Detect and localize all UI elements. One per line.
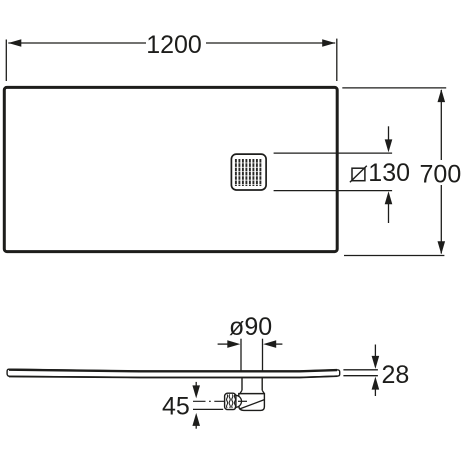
drain trap: body outline	[239, 394, 265, 411]
square symbol of 130 label	[352, 168, 365, 181]
dimension 700: dimension line upper segment	[440, 90, 442, 160]
dimension 28: bottom extension line	[343, 375, 378, 377]
dimension 700: bottom arrowhead (pointing down)	[438, 241, 446, 254]
drain trap: flange line	[239, 393, 265, 395]
drain trap: side boss semicircle	[236, 395, 242, 407]
drain trap: threaded connector nut	[225, 393, 236, 409]
dimension 1200: right arrowhead	[322, 39, 335, 47]
dimension 1200: right extension line	[336, 39, 338, 81]
dimension 45: bottom reference line	[193, 408, 223, 410]
drain trap: vertical outlet pipe	[241, 377, 243, 390]
dimension 130: bottom extension line	[274, 190, 393, 192]
drain grate bars	[236, 159, 261, 186]
svg-text:45: 45	[162, 392, 190, 420]
dimension 1200: dimension line right segment	[206, 42, 335, 44]
drain cover rounded square	[231, 154, 266, 190]
dimension 130: upper arrow (pointing down)	[388, 126, 390, 141]
svg-text:ø90: ø90	[229, 313, 272, 341]
drain trap: flare to body	[240, 390, 242, 393]
dimension 28: upper arrow (pointing down)	[374, 345, 376, 358]
dimension 28: top extension line	[343, 369, 378, 371]
drain trap: centerline across body	[238, 400, 247, 402]
dimension 700: dimension line lower segment	[440, 185, 442, 254]
dimension o90: right arrow (pointing left)	[274, 343, 282, 345]
shower tray side view profile	[7, 369, 340, 377]
drain trap: internal diagonal	[240, 400, 265, 409]
dimension 130: lower arrow (pointing up)	[388, 203, 390, 223]
svg-text:28: 28	[382, 361, 410, 389]
dimension 1200: left arrowhead	[8, 39, 21, 47]
dimension o90: left extension line	[240, 339, 242, 371]
svg-text:700: 700	[420, 160, 462, 188]
dimension 130: top extension line	[274, 152, 393, 154]
dimension 45: lower arrow (pointing up)	[195, 424, 197, 429]
dimension 700: top arrowhead (pointing up)	[438, 89, 446, 102]
shower tray side view bottom surface	[9, 376, 338, 377]
svg-text:130: 130	[368, 159, 410, 187]
dimension 1200: left extension line	[5, 40, 7, 82]
dimension 28: lower arrow (pointing up)	[374, 389, 376, 396]
dimension 45: upper arrow (pointing down)	[195, 382, 197, 388]
svg-text:1200: 1200	[146, 31, 202, 59]
dimension o90: right extension line	[262, 339, 264, 371]
drain axis centerline (dash-dot)	[193, 400, 247, 402]
shower tray top view outline	[4, 87, 337, 251]
dimension o90: left arrow (pointing right)	[218, 343, 230, 345]
dimension 1200: dimension line left segment	[8, 42, 146, 44]
dimension 700: bottom extension line	[344, 255, 444, 257]
dimension 700: top extension line	[342, 87, 446, 89]
shower tray side view top surface (thick)	[9, 370, 337, 372]
